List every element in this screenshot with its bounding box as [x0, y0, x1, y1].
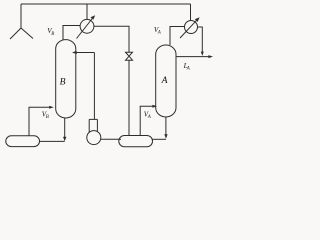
label column B	[60, 76, 66, 87]
svg-text:A: A	[186, 67, 190, 72]
label VB bottom	[42, 110, 49, 120]
label VB top	[47, 27, 54, 37]
wire boilup VB into column B	[29, 107, 50, 136]
label VA top	[154, 26, 161, 36]
wire condenser B heat arrow	[77, 17, 94, 39]
label VA bottom	[144, 111, 151, 120]
wire column B overhead vapor	[63, 26, 80, 41]
wire bottoms B to drum B	[64, 118, 66, 137]
wire top manifold	[21, 3, 191, 5]
svg-text:A: A	[157, 31, 161, 36]
wire bottoms A to drum A	[165, 117, 167, 135]
label LA	[183, 62, 190, 71]
wire manifold to condenser B	[86, 4, 88, 19]
valve V1	[126, 52, 133, 60]
condenser B	[80, 19, 94, 33]
wire pump riser	[93, 53, 95, 120]
wire condenser A heat arrow	[180, 19, 198, 38]
column A	[156, 45, 176, 117]
drum A	[119, 136, 153, 147]
wire boilup VA into column A	[140, 106, 153, 135]
wire manifold left drop	[20, 4, 22, 28]
pump P1	[87, 131, 101, 145]
pump collar	[89, 119, 97, 132]
column B	[56, 40, 76, 118]
svg-text:A: A	[147, 115, 151, 120]
node feed split wishbone	[10, 28, 33, 39]
wire column A overhead vapor	[170, 27, 185, 46]
wire reflux and distillate A	[176, 56, 209, 58]
drum B	[6, 136, 40, 147]
svg-text:B: B	[46, 115, 49, 120]
svg-text:A: A	[161, 75, 168, 86]
svg-text:B: B	[60, 76, 66, 87]
label column A	[161, 75, 168, 86]
svg-text:B: B	[51, 32, 54, 37]
wire manifold to condenser A	[190, 4, 192, 21]
wire condensate A drop	[198, 27, 203, 52]
wire reflux into column B	[76, 52, 94, 54]
condenser A	[185, 21, 198, 34]
wire condensate B to valve	[94, 26, 129, 52]
wire valve to drum A	[128, 60, 130, 136]
wire pump to drum A	[101, 138, 121, 140]
